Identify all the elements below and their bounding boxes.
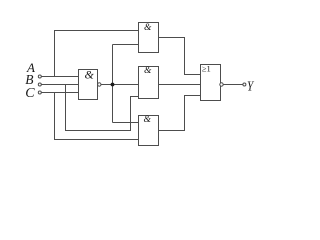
svg-text:&: & (144, 66, 152, 76)
terminal C (38, 91, 41, 94)
svg-text:≥1: ≥1 (202, 64, 211, 74)
wire OR gate output (223, 84, 243, 86)
NOR gate G5 box (201, 65, 221, 101)
wire middle AND output to OR gate (159, 84, 202, 86)
wire B input (41, 84, 79, 86)
terminal A (38, 75, 41, 78)
AND gate G2 box (top) (139, 23, 159, 53)
wire C tap to bottom AND gate (55, 93, 140, 140)
wire A input (41, 76, 79, 78)
junction node (111, 83, 115, 87)
svg-text:&: & (144, 115, 152, 125)
svg-text:C: C (25, 86, 35, 101)
svg-text:&: & (85, 68, 95, 82)
terminal Y (243, 83, 246, 86)
wire junction to top AND gate input (113, 44, 140, 46)
wire C input (41, 92, 79, 94)
wire NAND output to middle AND gate (101, 84, 139, 86)
wire B tap to middle AND gate (66, 85, 140, 131)
G1 output bubble (98, 83, 101, 86)
terminal B (38, 83, 41, 86)
G5 output bubble (220, 83, 223, 86)
svg-text:B: B (25, 72, 33, 87)
wire junction vertical (112, 45, 114, 123)
svg-text:Y: Y (247, 80, 255, 95)
wire junction to bottom AND gate input (113, 122, 140, 124)
wire top AND output to OR gate (159, 38, 202, 75)
AND gate G3 box (middle) (139, 67, 159, 99)
wire bottom AND output to OR gate (159, 96, 202, 131)
wire A tap to top AND gate (55, 31, 140, 77)
svg-text:&: & (144, 23, 152, 33)
NAND gate G1 box (79, 70, 98, 100)
AND gate G4 box (bottom) (139, 116, 159, 146)
